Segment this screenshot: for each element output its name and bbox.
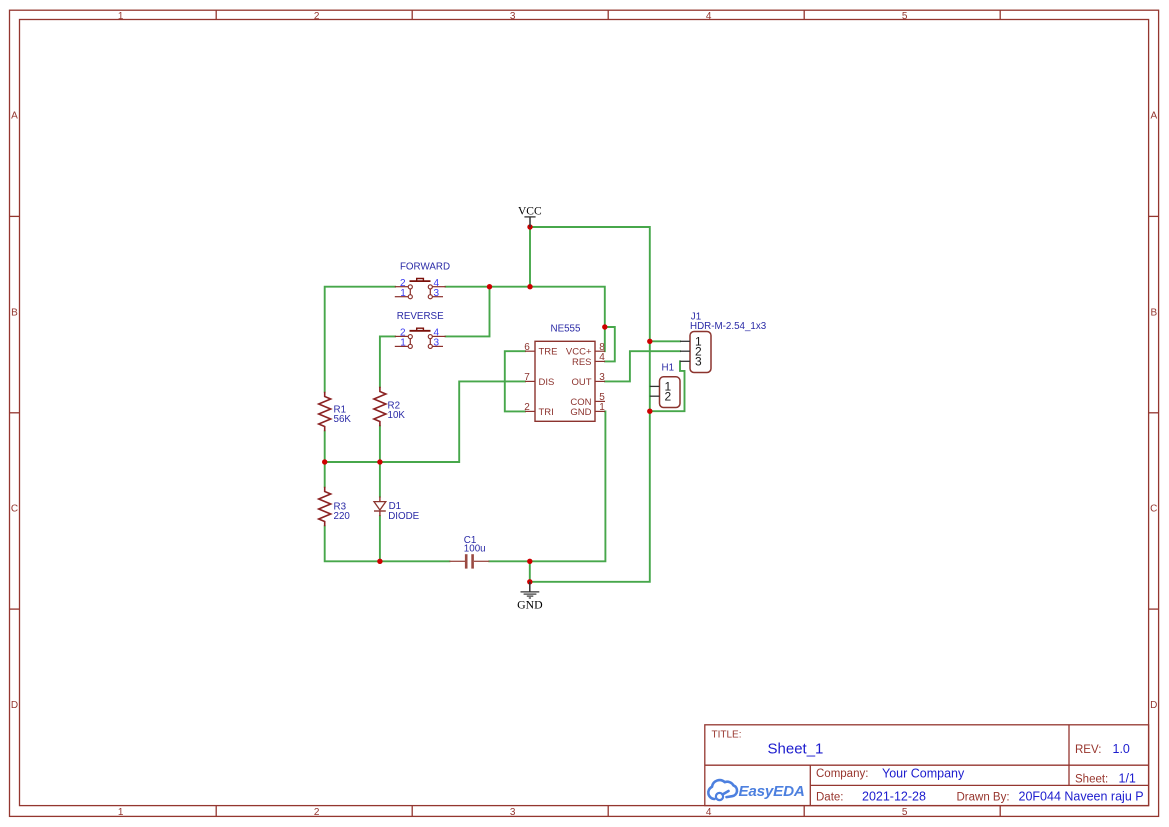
switch FORWARD [395, 261, 450, 298]
capacitor C1 [449, 535, 489, 569]
wire [530, 227, 650, 582]
svg-text:6: 6 [524, 342, 530, 353]
svg-text:TRE: TRE [539, 347, 558, 358]
svg-text:Drawn By:: Drawn By: [957, 792, 1010, 804]
junction [377, 559, 382, 564]
junction [602, 324, 607, 329]
junction [527, 284, 532, 289]
svg-text:2: 2 [524, 402, 530, 413]
wire [650, 361, 685, 411]
svg-text:2021-12-28: 2021-12-28 [862, 790, 926, 804]
junction [647, 409, 652, 414]
junction [487, 284, 492, 289]
svg-text:GND: GND [517, 598, 543, 612]
svg-text:B: B [1150, 308, 1157, 319]
svg-text:Sheet_1: Sheet_1 [768, 741, 824, 758]
op-amp/timer U NE555 [524, 323, 605, 421]
svg-text:RES: RES [572, 357, 592, 368]
wire [325, 381, 525, 462]
EasyEDA logo [708, 780, 737, 800]
svg-text:D: D [11, 700, 18, 711]
svg-text:Company:: Company: [816, 768, 868, 780]
wire [325, 287, 395, 392]
wire [489, 411, 605, 561]
svg-text:Your Company: Your Company [882, 767, 965, 781]
resistor R1 [319, 392, 352, 431]
wire [325, 526, 450, 561]
svg-text:1: 1 [599, 402, 605, 413]
wire [505, 351, 525, 411]
svg-text:3: 3 [599, 372, 605, 383]
power flag VCC [518, 205, 542, 227]
junction [527, 559, 532, 564]
svg-text:2: 2 [314, 11, 320, 22]
svg-text:H1: H1 [662, 362, 675, 373]
svg-text:FORWARD: FORWARD [400, 261, 450, 272]
svg-text:3: 3 [510, 11, 516, 22]
wire [324, 431, 326, 487]
svg-text:100u: 100u [464, 544, 486, 555]
svg-text:VCC: VCC [518, 205, 542, 217]
wire [380, 336, 395, 386]
junction [527, 224, 532, 229]
wire [446, 287, 490, 337]
wire [650, 340, 680, 342]
svg-text:3: 3 [510, 807, 516, 818]
svg-text:D: D [1150, 700, 1157, 711]
wire [379, 516, 381, 561]
resistor R3 [319, 487, 351, 526]
svg-text:5: 5 [902, 807, 908, 818]
svg-text:2: 2 [664, 390, 671, 404]
svg-text:A: A [1150, 111, 1157, 122]
svg-text:C: C [11, 504, 18, 515]
svg-text:REVERSE: REVERSE [397, 311, 444, 322]
wire [529, 561, 531, 582]
svg-text:C: C [1150, 504, 1157, 515]
svg-text:B: B [11, 308, 18, 319]
svg-text:56K: 56K [334, 414, 352, 425]
svg-text:Date:: Date: [816, 792, 844, 804]
svg-text:REV:: REV: [1075, 744, 1101, 756]
svg-text:2: 2 [314, 807, 320, 818]
svg-text:DIS: DIS [539, 377, 555, 388]
WIRES [322, 224, 685, 584]
svg-text:1/1: 1/1 [1119, 771, 1136, 785]
TITLEBLOCK [705, 725, 1149, 806]
junction [322, 459, 327, 464]
diode D1 [374, 497, 420, 522]
junction [527, 579, 532, 584]
svg-text:GND: GND [570, 407, 591, 418]
svg-text:4: 4 [706, 11, 712, 22]
svg-text:1: 1 [118, 807, 124, 818]
svg-text:5: 5 [902, 11, 908, 22]
svg-text:1: 1 [118, 11, 124, 22]
svg-text:1.0: 1.0 [1113, 742, 1130, 756]
svg-text:EasyEDA: EasyEDA [739, 783, 805, 800]
junction [647, 339, 652, 344]
svg-text:HDR-M-2.54_1x3: HDR-M-2.54_1x3 [690, 321, 767, 332]
connector H1 [650, 362, 680, 407]
svg-text:10K: 10K [388, 410, 406, 421]
resistor R2 [374, 387, 405, 426]
svg-text:NE555: NE555 [551, 323, 582, 334]
svg-text:A: A [11, 111, 18, 122]
connector J1 [680, 312, 767, 373]
svg-text:TITLE:: TITLE: [712, 730, 742, 741]
wire [605, 327, 615, 361]
svg-text:3: 3 [695, 355, 702, 369]
svg-text:DIODE: DIODE [388, 511, 419, 522]
svg-text:220: 220 [334, 511, 351, 522]
wire [605, 351, 680, 381]
wire [379, 426, 381, 496]
svg-text:4: 4 [599, 352, 605, 363]
wire [529, 227, 531, 287]
svg-text:Sheet:: Sheet: [1075, 773, 1108, 785]
svg-text:4: 4 [706, 807, 712, 818]
svg-text:20F044 Naveen raju P: 20F044 Naveen raju P [1019, 790, 1144, 804]
svg-text:TRI: TRI [539, 407, 554, 418]
svg-text:7: 7 [524, 372, 530, 383]
ground GND [517, 582, 543, 612]
svg-text:OUT: OUT [571, 377, 591, 388]
wire [446, 287, 605, 352]
junction [377, 459, 382, 464]
switch REVERSE [395, 311, 446, 348]
